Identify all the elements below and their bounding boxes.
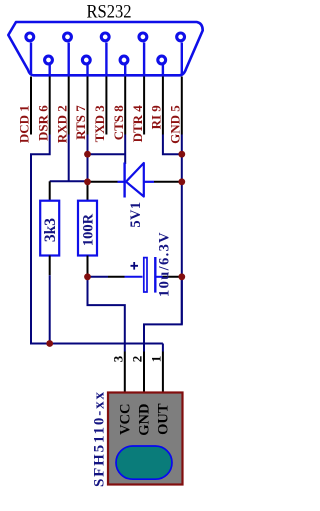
pin 1 circle: [26, 33, 34, 41]
pin 8 stub: [124, 65, 126, 75]
pin 9 circle: [158, 56, 166, 64]
pin RI black lead: [162, 77, 164, 135]
pin 3 circle: [101, 33, 109, 41]
svg-text:DTR 4: DTR 4: [130, 105, 145, 143]
pin 5 stub: [181, 43, 183, 75]
pin DCD black lead: [30, 77, 32, 135]
wire RXD down: [68, 135, 70, 182]
capacitor C1 left plate: [144, 258, 147, 292]
IC U1 body SFH5110: [108, 393, 183, 485]
svg-text:RS232: RS232: [87, 1, 132, 22]
svg-text:5V1: 5V1: [128, 202, 144, 228]
wire CTS down to zener cathode: [124, 135, 126, 165]
zener D1 anode lead blue stub: [144, 181, 154, 183]
svg-text:3k3: 3k3: [42, 218, 59, 242]
wire DSR down and left to long OUT line: [31, 135, 163, 344]
pin 2 circle: [64, 33, 72, 41]
zener D1 triangle: [126, 163, 144, 197]
pin 6 stub: [49, 65, 51, 75]
pin 3 stub: [105, 43, 107, 75]
IC U1 pin 3 lead black: [124, 352, 126, 392]
svg-text:DSR 6: DSR 6: [35, 105, 50, 141]
wire RTS down: [87, 135, 89, 182]
svg-text:RXD 2: RXD 2: [54, 105, 69, 143]
pin TXD black lead: [105, 77, 107, 135]
capacitor C1 left lead blue stub: [125, 276, 143, 278]
capacitor C1 plus sign: [131, 262, 139, 270]
resistor 100R body: [78, 201, 97, 256]
IC U1 pin 2 lead black: [143, 352, 145, 392]
junction dot 3k3 bottom OUT net: [46, 340, 53, 347]
pin RTS black lead: [87, 77, 89, 135]
svg-text:RTS 7: RTS 7: [73, 105, 88, 140]
svg-text:1: 1: [149, 356, 164, 363]
pin 2 stub: [67, 43, 69, 75]
pin 1 stub: [30, 43, 32, 75]
zener D1 cathode bar: [123, 163, 125, 198]
resistor 100R top lead: [87, 182, 89, 201]
svg-text:GND: GND: [137, 404, 153, 436]
pin RXD black lead: [68, 77, 70, 135]
svg-text:CTS 8: CTS 8: [111, 105, 126, 141]
pin 7 circle: [82, 56, 90, 64]
pin 6 circle: [45, 56, 53, 64]
resistor 3k3 bottom lead: [49, 256, 51, 276]
resistor 3k3 top lead: [49, 181, 51, 200]
wire 3k3 bottom down to OUT line: [49, 275, 51, 343]
capacitor C1 left wire navy: [88, 276, 109, 278]
pin DTR black lead: [143, 77, 145, 135]
pin 5 circle: [177, 33, 185, 41]
zener D1 cathode lead black: [88, 181, 118, 183]
svg-text:GND 5: GND 5: [168, 105, 183, 144]
svg-text:TXD 3: TXD 3: [92, 105, 107, 143]
svg-text:VCC: VCC: [118, 404, 134, 435]
svg-text:10u/6.3V: 10u/6.3V: [157, 231, 173, 297]
zener D1 cathode lead blue stub: [118, 181, 125, 183]
svg-text:OUT: OUT: [156, 403, 172, 435]
pin 9 stub: [162, 65, 164, 75]
junction dot RTS net: [84, 151, 91, 158]
capacitor C1 left lead black: [108, 276, 125, 278]
pin 8 circle: [120, 56, 128, 64]
svg-text:3: 3: [110, 355, 125, 362]
wire net A horizontal 3k3 top to junction: [50, 180, 88, 182]
svg-text:RI 9: RI 9: [149, 105, 164, 130]
wire GND column long vertical: [181, 135, 183, 325]
junction dot net A zener cathode: [84, 178, 91, 185]
junction dot zener anode GND: [178, 178, 185, 185]
wire GND net down right side to IC pin 2: [144, 277, 182, 352]
capacitor C1 right lead blue stub: [156, 276, 162, 278]
IC U1 pin 1 lead black: [162, 352, 164, 392]
svg-text:2: 2: [130, 356, 145, 363]
IC U1 lens ellipse: [116, 446, 172, 479]
connector X1 DB9 shell outline: [8, 22, 202, 75]
pin 7 stub: [86, 65, 88, 75]
svg-text:DCD 1: DCD 1: [17, 105, 32, 143]
pin CTS black lead: [124, 77, 126, 135]
pin 4 circle: [139, 33, 147, 41]
capacitor C1 right lead black: [163, 276, 182, 278]
junction dot cap GND right: [178, 273, 185, 280]
wire VCC net from cap junction to IC pin 3: [88, 277, 125, 352]
wire RTS to CTS column: [88, 153, 126, 155]
junction dot VCC cap left: [84, 273, 91, 280]
wire OUT net vertical to IC pin 1: [162, 344, 164, 352]
resistor 100R bottom lead: [87, 256, 89, 277]
pin 4 stub: [143, 43, 145, 75]
svg-text:100R: 100R: [81, 213, 97, 246]
resistor 3k3 body: [40, 201, 59, 256]
junction dot RI GND: [178, 151, 185, 158]
pin DSR black lead: [49, 77, 51, 135]
pin GND black lead: [181, 77, 183, 135]
capacitor C1 right plate: [154, 257, 156, 293]
svg-text:SFH5110-xx: SFH5110-xx: [91, 390, 107, 487]
zener D1 anode lead black: [154, 181, 182, 183]
wire RI to GND column: [163, 135, 182, 155]
